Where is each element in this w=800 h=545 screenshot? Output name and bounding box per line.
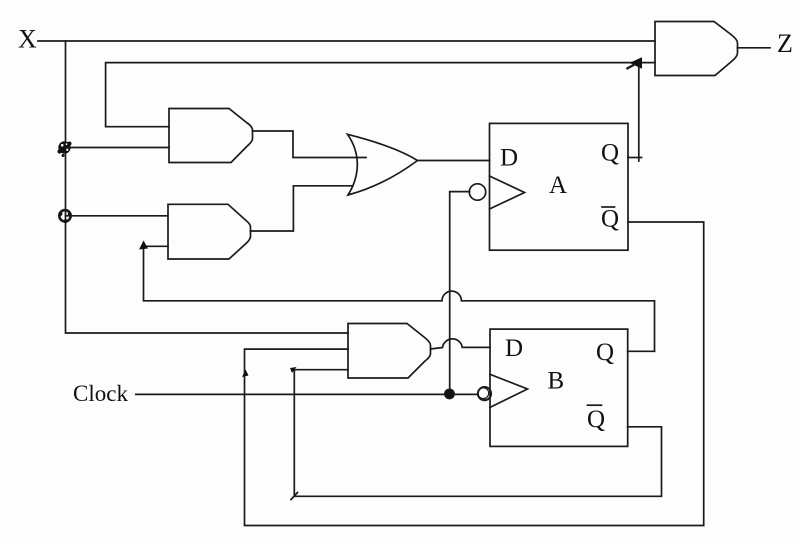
D flip-flop B box <box>490 329 628 446</box>
arrowhead tick at G4 input-3 corner <box>290 367 297 373</box>
FF A clock bubble <box>469 184 485 200</box>
svg-text:Z: Z <box>777 29 793 58</box>
wire X vertical bus down to AND G4 input 1 <box>66 41 349 333</box>
svg-text:Q: Q <box>601 206 619 233</box>
FF B clock triangle <box>490 374 528 407</box>
junction blob on clock line at FF A feed <box>445 389 454 398</box>
svg-text:Q: Q <box>587 406 605 433</box>
wire AND G1 output to OR G3 top input <box>253 131 367 158</box>
svg-text:B: B <box>548 368 565 395</box>
svg-text:A: A <box>549 172 567 199</box>
wire AND G2 output to OR G3 bottom input <box>251 186 354 231</box>
AND gate G1 <box>169 109 253 163</box>
wire feedback line from Z-gate bottom input down to AND G1 upper input <box>106 63 655 127</box>
wire FF B Q feedback: Q up, left along y=301 with hop, down to AND G2 bottom input <box>144 246 655 351</box>
arrowhead at AND G2 bottom input corner <box>139 241 148 250</box>
wire FF A Qbar loop to AND G4 input 2 <box>245 222 704 526</box>
AND gate G4 (before FF B) <box>348 324 431 379</box>
junction arrow at node F on feedback line <box>630 57 643 68</box>
wire FF A Q output stub <box>628 157 642 159</box>
svg-text:Q: Q <box>596 339 614 366</box>
wire from J1 to AND G1 lower input <box>66 147 170 149</box>
svg-text:D: D <box>505 335 523 362</box>
wire vertical from node F down to FF A Q output <box>638 63 640 161</box>
FF A clock triangle <box>490 176 525 209</box>
arrowhead tick at Qbar-B loop bottom-left corner <box>291 493 298 500</box>
wire FF A clock feed vertical <box>450 192 470 394</box>
svg-text:X: X <box>18 25 37 54</box>
FF B clock bubble <box>478 387 491 400</box>
wire Clock line to FF B bubble <box>136 393 478 395</box>
wire from J2 to AND G2 upper input <box>66 215 169 217</box>
D flip-flop A box <box>490 123 629 250</box>
svg-text:D: D <box>500 145 518 172</box>
AND gate G2 <box>168 204 251 259</box>
junction dot J2 on X bus <box>59 210 72 223</box>
wire OR G3 output to FF A D input <box>418 160 490 162</box>
wire X input line to Z-gate top input <box>38 40 655 42</box>
svg-text:Clock: Clock <box>73 381 128 406</box>
svg-text:Q: Q <box>601 140 619 167</box>
junction dot J1 on X bus <box>57 141 71 157</box>
OR gate G3 <box>348 134 418 195</box>
arrowhead tick on G4 input-2 vertical <box>242 370 249 378</box>
wire FF B Qbar loop to AND G4 input 3 <box>294 370 661 497</box>
wire Z output <box>738 47 771 49</box>
wire AND G4 output with hop over clock feed into FF B D input <box>431 339 491 349</box>
AND gate G5 (output gate) <box>655 22 738 76</box>
wire FF B Q output stub <box>628 350 655 352</box>
